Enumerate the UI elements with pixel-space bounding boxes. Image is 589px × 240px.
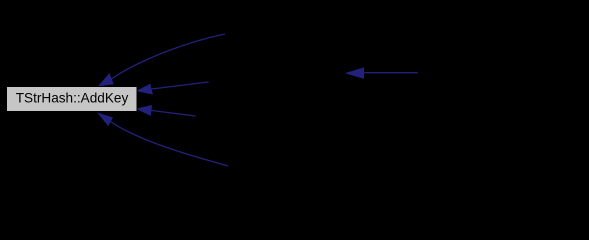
wire edge E (horizontal arrow between hidden nodes): [364, 72, 418, 74]
node arrowhead D: [98, 113, 112, 125]
node arrowhead B: [137, 85, 152, 95]
svg-text:TStrHash::AddKey: TStrHash::AddKey: [16, 91, 129, 106]
node arrowhead E: [347, 68, 364, 78]
wire edge A (curved caller edge, top): [111, 34, 225, 79]
wire edge C (straight caller edge, lower right): [151, 110, 196, 116]
node arrowhead C: [138, 106, 152, 116]
wire edge B (straight caller edge, upper right): [152, 82, 209, 89]
node arrowhead A: [99, 74, 113, 86]
wire edge D (curved caller edge, bottom): [110, 122, 228, 167]
node TStrHash::AddKey: [7, 87, 138, 112]
